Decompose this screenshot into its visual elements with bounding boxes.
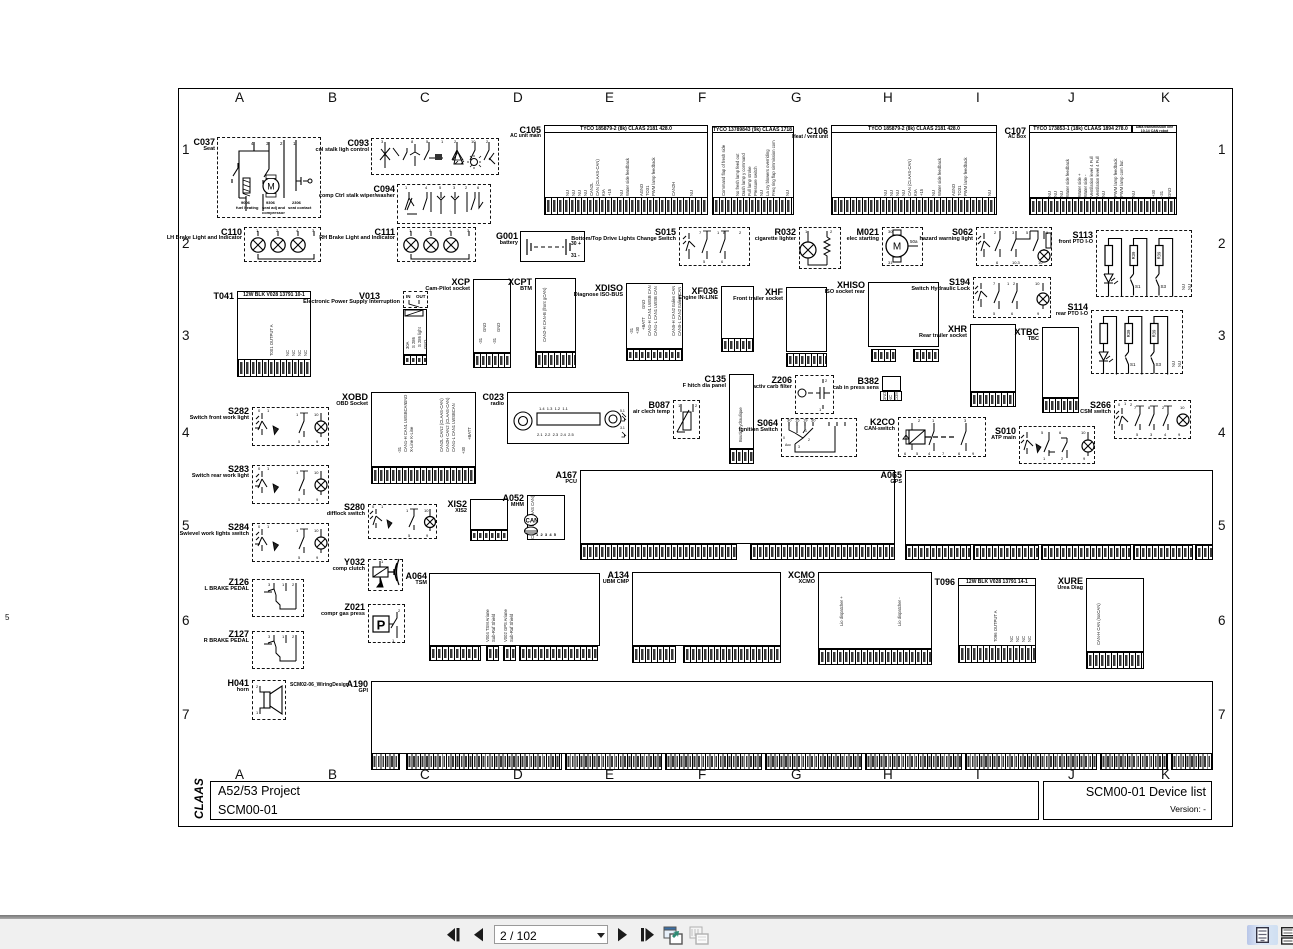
XURE terminal strip A-J bbox=[1086, 652, 1144, 669]
single page view button active bbox=[1247, 925, 1278, 945]
svg-text:1: 1 bbox=[296, 412, 299, 417]
svg-text:5: 5 bbox=[298, 555, 301, 560]
svg-text:2: 2 bbox=[825, 378, 828, 383]
A065 strip 3.x bbox=[1041, 545, 1131, 560]
svg-text:3: 3 bbox=[964, 418, 967, 423]
svg-text:6: 6 bbox=[958, 451, 961, 456]
svg-text:0: 0 bbox=[783, 436, 785, 440]
svg-text:6: 6 bbox=[996, 260, 999, 265]
svg-text:9: 9 bbox=[316, 497, 319, 502]
socket XCP Cam-Pilot box bbox=[473, 279, 511, 353]
module A167 PCU box bbox=[580, 470, 895, 544]
svg-text:3: 3 bbox=[1150, 432, 1153, 437]
page list button clipped bbox=[1281, 927, 1293, 944]
switch S010 ATP main box bbox=[1019, 426, 1095, 464]
svg-text:5: 5 bbox=[703, 259, 706, 264]
sensor B087 air clutch temp box bbox=[673, 400, 700, 439]
T096 terminal strip 1.1-1.12 bbox=[958, 645, 1036, 663]
prev page button bbox=[474, 928, 484, 942]
svg-text:1: 1 bbox=[296, 528, 299, 533]
svg-text:5: 5 bbox=[1041, 430, 1044, 435]
svg-text:9: 9 bbox=[316, 439, 319, 444]
svg-text:0: 0 bbox=[258, 466, 261, 471]
connector C105 body part1 bbox=[544, 125, 708, 198]
svg-text:R39: R39 bbox=[1131, 251, 1136, 259]
toolbar background bbox=[0, 919, 1293, 949]
svg-text:9: 9 bbox=[1083, 456, 1086, 461]
filter Z206 activ carb box bbox=[795, 375, 834, 414]
transformer T096 box bbox=[958, 578, 1036, 663]
connector XF036 engine in-line box bbox=[721, 286, 754, 339]
svg-text:9: 9 bbox=[426, 533, 429, 538]
svg-text:1: 1 bbox=[282, 634, 285, 639]
svg-text:10: 10 bbox=[1035, 281, 1040, 286]
A167 strip 2.x bbox=[750, 544, 895, 560]
svg-text:10.3: 10.3 bbox=[1012, 260, 1021, 265]
svg-text:19: 19 bbox=[803, 418, 808, 423]
motor M021 elec starting box bbox=[882, 227, 923, 266]
svg-text:S3: S3 bbox=[1161, 284, 1167, 289]
T041 terminal strip 1.1-1.12 bbox=[237, 359, 311, 377]
socket XDISO diagnose ISO-BUS box bbox=[626, 283, 683, 349]
svg-text:2: 2 bbox=[398, 608, 401, 613]
C105 header bar part2 bbox=[712, 126, 794, 133]
V013 terminal strip bbox=[403, 355, 427, 365]
A190 strip W.x bbox=[1171, 753, 1213, 770]
svg-text:5: 5 bbox=[993, 311, 996, 316]
socket XURE urea diag box bbox=[1086, 578, 1144, 652]
svg-text:R39: R39 bbox=[1126, 329, 1131, 337]
row numbers left bbox=[182, 142, 190, 157]
module A134 UDM CMP box bbox=[632, 572, 781, 646]
switch S194 hydraulic lock box bbox=[973, 277, 1051, 318]
resistor/lamp R032 cigarette lighter box bbox=[799, 227, 841, 269]
svg-text:4: 4 bbox=[425, 185, 428, 190]
C023 radio face symbols bbox=[507, 392, 629, 444]
socket XCPT BTM box bbox=[535, 278, 576, 352]
S280 switch symbol bbox=[368, 504, 437, 539]
svg-text:5: 5 bbox=[439, 185, 442, 190]
XCPT terminal strip 1.1-1.5 bbox=[535, 352, 576, 368]
Z126 pedal switch symbol bbox=[252, 579, 304, 617]
switch Z126 L brake pedal box bbox=[252, 579, 304, 617]
switch S282 front work light box bbox=[252, 407, 329, 446]
connector C107 body bbox=[1029, 125, 1177, 198]
C107 terminal strip bbox=[1029, 198, 1177, 215]
title box device list bbox=[1043, 781, 1212, 820]
A190 strip V.x bbox=[1100, 753, 1168, 770]
A190 strip P.x bbox=[371, 753, 400, 770]
A190 strip E.x bbox=[865, 753, 962, 770]
svg-text:Acc: Acc bbox=[785, 443, 791, 447]
svg-text:3: 3 bbox=[1012, 230, 1015, 235]
svg-text:M: M bbox=[267, 182, 275, 192]
XDISO terminal strip A-J bbox=[626, 349, 683, 361]
S283 switch symbol bbox=[252, 465, 329, 504]
svg-text:1: 1 bbox=[256, 710, 259, 715]
S194 switch symbols bbox=[973, 277, 1051, 318]
A064 strip 2.x bbox=[486, 646, 499, 661]
relay K2CO CAN-switch box bbox=[898, 417, 986, 457]
module A052 MHM box bbox=[527, 495, 565, 540]
lamp unit C111 RH brake light box bbox=[397, 227, 476, 262]
svg-text:R39: R39 bbox=[1156, 251, 1161, 259]
snapshot icon bbox=[663, 926, 683, 945]
switch S266 CSM box bbox=[1114, 400, 1191, 439]
svg-text:31: 31 bbox=[888, 260, 893, 265]
svg-text:1: 1 bbox=[392, 638, 395, 643]
drawing frame border bbox=[178, 88, 1233, 827]
module A190 GPI box bbox=[371, 681, 1213, 754]
Y032 clutch symbol bbox=[368, 559, 403, 591]
C110 three lamps bbox=[244, 227, 321, 262]
svg-text:2: 2 bbox=[465, 185, 468, 190]
svg-text:2: 2 bbox=[292, 634, 295, 639]
svg-text:1: 1 bbox=[282, 582, 285, 587]
S010 switch and lamp bbox=[1019, 426, 1095, 464]
page number combo box bbox=[494, 925, 608, 944]
svg-text:1: 1 bbox=[1043, 456, 1046, 461]
switch S284 swivel work lights box bbox=[252, 523, 329, 562]
svg-text:15: 15 bbox=[795, 418, 800, 423]
C111 three lamps bbox=[397, 227, 476, 262]
svg-text:2: 2 bbox=[808, 438, 810, 442]
C107 header side box bbox=[1132, 125, 1177, 133]
C105 header bar part1 bbox=[544, 125, 708, 133]
T041 pin labels bbox=[270, 310, 274, 356]
C107 header bar bbox=[1029, 125, 1132, 133]
socket XIS2 box bbox=[470, 499, 508, 530]
A065 strip 2.x bbox=[973, 545, 1039, 560]
socket XTBC TBC box bbox=[1042, 327, 1079, 398]
switch S062 hazard warning light box bbox=[976, 227, 1052, 266]
switch S280 difflock box bbox=[368, 504, 437, 539]
transformer T041 box bbox=[237, 291, 311, 377]
C107 pin function labels bbox=[1048, 183, 1052, 197]
XHISO strip 2.x bbox=[913, 349, 939, 362]
svg-text:6: 6 bbox=[904, 451, 907, 456]
svg-text:1.4 1.3 1.2 1.1: 1.4 1.3 1.2 1.1 bbox=[539, 406, 569, 411]
svg-text:10: 10 bbox=[1180, 405, 1185, 410]
S284 switch symbol bbox=[252, 523, 329, 562]
last page button bbox=[641, 928, 655, 942]
G001 battery symbol bbox=[520, 231, 585, 262]
svg-text:9: 9 bbox=[316, 555, 319, 560]
svg-text:2: 2 bbox=[918, 418, 921, 423]
XOBD terminal strip 1-16 bbox=[371, 467, 476, 484]
module V013 IN OUT box bbox=[403, 291, 428, 308]
svg-text:1: 1 bbox=[409, 228, 412, 233]
column letters top bbox=[235, 90, 244, 105]
C135 terminal strip bbox=[729, 449, 754, 464]
XDISO pin labels bbox=[630, 322, 634, 334]
stray page mark 5 bbox=[5, 613, 9, 622]
svg-text:4: 4 bbox=[449, 228, 452, 233]
module V013 label bbox=[359, 292, 380, 300]
wiring design note bbox=[290, 683, 349, 688]
XHISO strip 1.x bbox=[871, 349, 896, 362]
svg-text:2: 2 bbox=[739, 230, 742, 235]
solenoid Y032 comp clutch box bbox=[368, 559, 403, 591]
R032 lamp and resistor bbox=[799, 227, 841, 269]
A065 strip 4.x bbox=[1133, 545, 1193, 560]
A190 strip F.x bbox=[965, 753, 1097, 770]
A190 strip C.x bbox=[665, 753, 762, 770]
C106 pin function labels bbox=[884, 182, 888, 196]
sensor Z021 compr gas press box bbox=[368, 604, 405, 643]
A065 strip 1.x bbox=[905, 545, 971, 560]
lamp unit C110 LH brake light box bbox=[244, 227, 321, 262]
svg-text:2: 2 bbox=[1061, 456, 1064, 461]
radio C023 box bbox=[507, 392, 629, 444]
svg-text:S1: S1 bbox=[1135, 284, 1141, 289]
CLAAS logo bbox=[192, 781, 209, 819]
svg-text:1: 1 bbox=[717, 230, 720, 235]
A190 strip A.x bbox=[406, 753, 562, 770]
svg-text:2: 2 bbox=[1130, 402, 1133, 407]
svg-text:6: 6 bbox=[1059, 430, 1062, 435]
svg-text:3: 3 bbox=[381, 139, 384, 144]
svg-text:2: 2 bbox=[830, 229, 833, 234]
svg-text:5: 5 bbox=[916, 451, 919, 456]
row numbers right bbox=[1218, 142, 1226, 157]
M021 motor symbol bbox=[882, 227, 923, 266]
svg-text:3: 3 bbox=[268, 634, 271, 639]
module A065 GPS box bbox=[905, 470, 1213, 545]
connector C093 col stalk light control box bbox=[371, 138, 499, 175]
svg-text:7: 7 bbox=[993, 281, 996, 286]
title box project bbox=[210, 781, 1039, 820]
svg-text:10: 10 bbox=[471, 139, 476, 144]
svg-text:1: 1 bbox=[805, 429, 807, 433]
svg-text:9: 9 bbox=[972, 451, 975, 456]
svg-text:M: M bbox=[893, 242, 901, 253]
A064 strip 4.x bbox=[519, 646, 598, 661]
svg-text:1: 1 bbox=[819, 407, 822, 412]
svg-text:7: 7 bbox=[699, 230, 702, 235]
socket XHISO ISO socket rear box bbox=[868, 282, 939, 347]
svg-text:3: 3 bbox=[467, 228, 470, 233]
A065 strip 5.x bbox=[1195, 545, 1213, 560]
svg-text:10: 10 bbox=[314, 470, 319, 475]
XHF terminal strip bbox=[786, 353, 827, 367]
Z206 capacitor symbol bbox=[795, 375, 834, 414]
toolbar top border bbox=[0, 915, 1293, 919]
V013 switch and fuse symbol bbox=[403, 291, 428, 355]
socket XHR rear trailer box bbox=[970, 324, 1016, 392]
svg-text:2: 2 bbox=[1013, 281, 1016, 286]
svg-text:5: 5 bbox=[298, 439, 301, 444]
svg-text:3.1: 3.1 bbox=[620, 426, 625, 430]
S282 switch symbol bbox=[252, 407, 329, 446]
svg-text:1: 1 bbox=[267, 524, 270, 529]
svg-text:3: 3 bbox=[312, 228, 315, 233]
A190 strip D.x bbox=[765, 753, 862, 770]
connector XCMO box bbox=[818, 572, 932, 649]
svg-text:OUT: OUT bbox=[416, 294, 426, 299]
clipboard icon disabled bbox=[689, 926, 709, 945]
battery G001 box bbox=[520, 231, 585, 262]
svg-text:S1: S1 bbox=[1130, 362, 1136, 367]
T041 header bar bbox=[237, 291, 311, 299]
switch S064 ignition box bbox=[781, 418, 857, 457]
XIS2 terminal strip bbox=[470, 530, 508, 541]
next page button bbox=[617, 928, 627, 942]
svg-text:R39: R39 bbox=[1151, 329, 1156, 337]
svg-text:1: 1 bbox=[267, 408, 270, 413]
svg-text:2: 2 bbox=[256, 684, 259, 689]
S015 switch symbols bbox=[679, 227, 750, 266]
S266 switch and lamp bbox=[1114, 400, 1191, 439]
svg-text:30: 30 bbox=[888, 229, 893, 234]
panel C135 F hitch dia box bbox=[729, 374, 754, 449]
A064 strip 1.x bbox=[429, 646, 481, 661]
svg-text:1: 1 bbox=[296, 470, 299, 475]
socket XHF front trailer box bbox=[786, 287, 827, 352]
svg-text:4: 4 bbox=[1164, 432, 1167, 437]
svg-text:9: 9 bbox=[1037, 311, 1040, 316]
Z127 pedal switch symbol bbox=[252, 631, 304, 669]
svg-text:1: 1 bbox=[381, 504, 384, 509]
svg-text:2: 2 bbox=[994, 230, 997, 235]
svg-text:2: 2 bbox=[695, 403, 698, 408]
S113 resistors LED and switches bbox=[1096, 230, 1192, 297]
V013 body box bbox=[403, 309, 427, 355]
svg-text:4: 4 bbox=[296, 228, 299, 233]
XCP terminal strip bbox=[473, 353, 511, 368]
connector C105 body part2 bbox=[712, 126, 794, 198]
connector C094 comp Ctrl stalk wiper-washer box bbox=[397, 184, 491, 224]
svg-text:1: 1 bbox=[267, 466, 270, 471]
svg-text:6: 6 bbox=[1011, 311, 1014, 316]
svg-text:0: 0 bbox=[258, 524, 261, 529]
svg-text:5: 5 bbox=[408, 533, 411, 538]
C105 terminal strip 1.1-1.26 bbox=[544, 197, 708, 215]
A052 CAN logo stamp bbox=[524, 514, 538, 536]
svg-text:10: 10 bbox=[1081, 430, 1086, 435]
svg-text:2: 2 bbox=[276, 228, 279, 233]
svg-text:8: 8 bbox=[411, 139, 414, 144]
XF036 terminal strip bbox=[721, 338, 754, 352]
A134 strip 2.x bbox=[683, 646, 781, 663]
svg-text:1: 1 bbox=[406, 508, 409, 513]
svg-text:10: 10 bbox=[314, 528, 319, 533]
C106 terminal strip bbox=[831, 197, 997, 215]
svg-text:1: 1 bbox=[1007, 281, 1010, 286]
C105 terminal strip C282.x bbox=[712, 197, 794, 215]
svg-text:2: 2 bbox=[280, 141, 283, 146]
connector C106 body bbox=[831, 125, 997, 198]
Z021 pressure switch symbol bbox=[368, 604, 405, 643]
A134 strip 1.x bbox=[632, 646, 676, 663]
XCMO terminal strip bbox=[818, 649, 932, 665]
first page button bbox=[447, 928, 461, 942]
connector C037 Seat box bbox=[217, 137, 321, 218]
svg-text:1: 1 bbox=[256, 228, 259, 233]
switch S283 rear work light box bbox=[252, 465, 329, 504]
T096 header bar bbox=[958, 578, 1036, 586]
module S114 rear PTO I-O box bbox=[1091, 310, 1183, 374]
C094 wiper switch symbols bbox=[397, 184, 491, 224]
svg-text:50: 50 bbox=[811, 418, 816, 423]
svg-text:10: 10 bbox=[424, 508, 429, 513]
svg-text:2: 2 bbox=[292, 582, 295, 587]
switch S015 bottom/top drive lights change switch box bbox=[679, 227, 750, 266]
S062 switch symbols and lamp bbox=[976, 227, 1052, 266]
XTBC terminal strip bbox=[1042, 398, 1079, 413]
svg-text:9: 9 bbox=[1178, 432, 1181, 437]
socket XOBD OBD box bbox=[371, 392, 476, 467]
svg-text:10: 10 bbox=[314, 412, 319, 417]
K2CO relay symbol bbox=[898, 417, 986, 457]
svg-text:4: 4 bbox=[928, 451, 931, 456]
svg-text:5: 5 bbox=[1136, 432, 1139, 437]
svg-text:5: 5 bbox=[298, 497, 301, 502]
B087 thermistor symbol bbox=[673, 400, 700, 439]
C037 seat motor circuit symbol bbox=[217, 137, 321, 218]
column letters bottom bbox=[235, 767, 244, 782]
svg-text:6: 6 bbox=[477, 185, 480, 190]
svg-text:5.1: 5.1 bbox=[620, 409, 625, 413]
svg-text:6: 6 bbox=[721, 259, 724, 264]
svg-text:3: 3 bbox=[268, 582, 271, 587]
A190 strip B.x bbox=[565, 753, 662, 770]
A064 strip 3.x bbox=[503, 646, 516, 661]
svg-text:CAN: CAN bbox=[526, 519, 539, 525]
horn H041 box bbox=[252, 680, 286, 720]
svg-text:1: 1 bbox=[405, 185, 408, 190]
svg-text:0: 0 bbox=[258, 408, 261, 413]
svg-text:30: 30 bbox=[787, 418, 792, 423]
svg-text:50a: 50a bbox=[910, 239, 918, 244]
B382 terminal cells bbox=[880, 391, 902, 401]
A167 strip 1.x bbox=[580, 544, 737, 560]
svg-text:5: 5 bbox=[1026, 230, 1029, 235]
svg-text:1: 1 bbox=[1124, 401, 1127, 406]
svg-text:3: 3 bbox=[798, 445, 800, 449]
svg-text:1: 1 bbox=[381, 559, 384, 564]
switch Z127 R brake pedal box bbox=[252, 631, 304, 669]
module S113 front PTO I-O box bbox=[1096, 230, 1192, 297]
C093 stalk switch symbols bbox=[371, 138, 499, 175]
svg-text:3: 3 bbox=[453, 185, 456, 190]
svg-text:31 -: 31 - bbox=[571, 253, 580, 259]
S114 resistors LED and switches bbox=[1091, 308, 1187, 375]
svg-text:IN: IN bbox=[406, 294, 411, 299]
module A064 TSM box bbox=[429, 573, 600, 646]
svg-text:0: 0 bbox=[372, 504, 375, 509]
svg-text:2.1 2.2 2.3 2.4 2.5: 2.1 2.2 2.3 2.4 2.5 bbox=[537, 432, 574, 437]
svg-text:7: 7 bbox=[942, 451, 945, 456]
svg-text:0: 0 bbox=[1118, 402, 1121, 407]
sensor B382 cab in press box bbox=[882, 376, 901, 391]
XOBD pin labels bbox=[398, 441, 402, 453]
svg-text:1: 1 bbox=[441, 139, 444, 144]
svg-text:S3: S3 bbox=[1156, 362, 1162, 367]
XHR terminal strip bbox=[970, 392, 1016, 407]
svg-text:2: 2 bbox=[429, 228, 432, 233]
svg-text:1: 1 bbox=[932, 418, 935, 423]
H041 horn symbol bbox=[252, 680, 286, 720]
C106 header bar bbox=[831, 125, 997, 133]
svg-text:P: P bbox=[377, 618, 386, 633]
C105 pin function labels bbox=[566, 182, 570, 196]
S064 ignition switch symbol bbox=[781, 418, 857, 457]
